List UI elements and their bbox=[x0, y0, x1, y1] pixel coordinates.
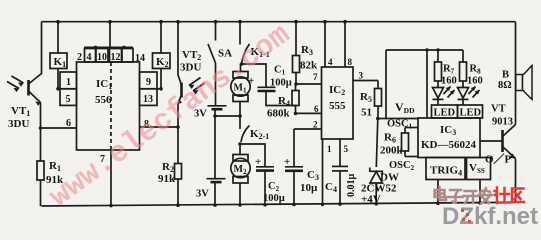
transistor VT1 (3DU phototransistor) bbox=[7, 76, 41, 130]
wire OSC2 pin bbox=[405, 156, 418, 158]
svg-text:3DU: 3DU bbox=[180, 62, 201, 74]
wire VDD node to LED rail bbox=[378, 50, 386, 119]
wire IC2 pin8 bbox=[344, 22, 346, 67]
motor M2 bbox=[231, 144, 250, 205]
svg-text:VT2: VT2 bbox=[182, 49, 201, 62]
svg-text:2: 2 bbox=[313, 120, 318, 130]
node M1/C1 junction bbox=[240, 62, 244, 66]
svg-text:B: B bbox=[502, 70, 509, 81]
svg-text:6: 6 bbox=[66, 118, 71, 129]
LED D2 bbox=[458, 87, 480, 106]
svg-text:5: 5 bbox=[66, 94, 71, 105]
speaker B 8ohm bbox=[498, 66, 532, 100]
svg-text:VSS: VSS bbox=[469, 162, 485, 175]
svg-text:0.01µ: 0.01µ bbox=[346, 174, 357, 198]
svg-text:160: 160 bbox=[441, 76, 457, 87]
svg-text:5: 5 bbox=[344, 144, 349, 154]
resistor R8 160 bbox=[460, 50, 483, 88]
wire VT1 collector to top rail bbox=[29, 22, 42, 84]
svg-text:K1: K1 bbox=[54, 56, 67, 69]
svg-text:10µ: 10µ bbox=[300, 182, 318, 194]
svg-text:LED: LED bbox=[460, 108, 482, 119]
svg-text:1: 1 bbox=[327, 144, 332, 154]
svg-text:14: 14 bbox=[135, 53, 145, 64]
LED D1 bbox=[433, 87, 455, 106]
svg-text:VT: VT bbox=[491, 104, 506, 115]
wire IC1 pin7 to ground bbox=[110, 150, 112, 206]
svg-text:OSC1: OSC1 bbox=[387, 119, 413, 131]
svg-text:4: 4 bbox=[87, 52, 92, 63]
wire right border: speaker/collector segment bbox=[515, 22, 517, 125]
battery GB2 3V bbox=[196, 116, 226, 205]
svg-text:OSC2: OSC2 bbox=[389, 160, 415, 172]
svg-text:+: + bbox=[284, 156, 290, 168]
resistor R2 91k bbox=[158, 127, 182, 205]
capacitor C4 (pin5) bbox=[325, 139, 357, 204]
svg-text:10: 10 bbox=[97, 52, 107, 63]
svg-text:3: 3 bbox=[359, 71, 364, 81]
IC1 pin box 9 bbox=[140, 72, 158, 89]
svg-text:100µ: 100µ bbox=[270, 78, 292, 89]
resistor R5 51 bbox=[360, 81, 382, 119]
svg-text:R4: R4 bbox=[278, 95, 290, 108]
svg-text:VDD: VDD bbox=[395, 100, 415, 115]
resistor R1 91k bbox=[37, 128, 64, 206]
svg-text:2: 2 bbox=[77, 52, 82, 63]
wire bottom ground rail bbox=[42, 202, 516, 206]
svg-text:R3: R3 bbox=[301, 44, 313, 57]
wire LED supply sub-rail bbox=[386, 49, 463, 51]
node pin8 rail junction bbox=[343, 20, 347, 24]
svg-text:9: 9 bbox=[146, 77, 151, 88]
wire pin13 to K2 bbox=[157, 88, 161, 90]
transistor VT 9013 bbox=[491, 104, 516, 159]
svg-text:VT1: VT1 bbox=[11, 105, 30, 118]
svg-text:DZkf.net: DZkf.net bbox=[442, 203, 538, 229]
motor M1 bbox=[231, 64, 250, 116]
svg-text:82k: 82k bbox=[300, 60, 318, 72]
IC1 pin box 1 bbox=[60, 72, 77, 89]
wire right border: emitter to ground bbox=[515, 159, 517, 204]
svg-text:9013: 9013 bbox=[492, 117, 513, 128]
IC3 pin box TRIG4 bbox=[426, 158, 465, 180]
wire IC1 pin8 bbox=[140, 126, 179, 128]
svg-text:1: 1 bbox=[66, 77, 71, 88]
svg-text:TRIG4: TRIG4 bbox=[430, 165, 462, 178]
svg-text:680k: 680k bbox=[267, 108, 291, 120]
resistor R7 160 bbox=[435, 50, 457, 88]
node M1 bottom junction bbox=[238, 114, 242, 118]
svg-text:51: 51 bbox=[361, 107, 372, 119]
svg-text:7: 7 bbox=[313, 72, 318, 82]
node VT2 top rail junction bbox=[176, 20, 180, 24]
svg-text:C3: C3 bbox=[307, 169, 319, 182]
svg-text:C2: C2 bbox=[268, 181, 280, 193]
IC3 pin box LED (left) bbox=[432, 105, 458, 118]
relay coil K1 bbox=[50, 22, 67, 89]
wire top supply rail bbox=[42, 21, 516, 23]
svg-text:M2: M2 bbox=[234, 164, 247, 176]
svg-text:IC2: IC2 bbox=[329, 84, 345, 97]
svg-text:R7: R7 bbox=[443, 64, 455, 76]
node K1 top rail junction bbox=[56, 20, 60, 24]
wire IC2 pin4 bbox=[324, 22, 326, 67]
op-amp U1: IC1 556 dual timer box bbox=[77, 62, 140, 150]
svg-text:LED: LED bbox=[434, 108, 456, 119]
wire IC2 pin1 to ground bbox=[322, 139, 324, 204]
node K1-1 top rail junction bbox=[238, 20, 242, 24]
relay contact K2-1 bbox=[240, 116, 269, 142]
svg-text:4: 4 bbox=[328, 57, 333, 67]
svg-text:R8: R8 bbox=[470, 64, 482, 76]
svg-text:160: 160 bbox=[467, 76, 483, 87]
node pin8/VT2 junction bbox=[176, 125, 180, 129]
IC1 top pin header boxes 2,4,10,12,14 bbox=[77, 20, 145, 64]
IC3 pin box LED (right) bbox=[458, 105, 483, 118]
badge 电子开发社区 (drawn strokes) bbox=[435, 187, 493, 204]
wire VDD pin drop bbox=[426, 50, 428, 118]
node R3 top rail junction bbox=[294, 20, 298, 24]
svg-text:200k: 200k bbox=[380, 145, 404, 157]
wire IC3 O/P to transistor base bbox=[480, 140, 503, 142]
svg-text:3V: 3V bbox=[196, 189, 209, 200]
svg-text:12: 12 bbox=[111, 52, 121, 63]
relay contact K1-1 bbox=[240, 22, 270, 64]
svg-text:6: 6 bbox=[314, 104, 319, 114]
node SA top rail junction bbox=[214, 20, 218, 24]
wire VDD node to IC3 bbox=[386, 118, 418, 120]
zener diode DW 2CW52 bbox=[361, 119, 399, 206]
svg-text:R6: R6 bbox=[384, 132, 396, 145]
node battery mid junction bbox=[213, 114, 217, 118]
svg-text:C1: C1 bbox=[274, 65, 286, 77]
badge DZkf.net bbox=[442, 203, 538, 230]
wire VSS to ground bbox=[479, 180, 481, 203]
svg-text:8: 8 bbox=[348, 57, 353, 67]
svg-text:K2: K2 bbox=[156, 56, 169, 69]
svg-text:C4: C4 bbox=[325, 181, 337, 194]
wire battery to M1 branch bbox=[215, 115, 240, 117]
IC1 pin box 13 bbox=[140, 89, 158, 106]
svg-text:www.elecfans.com: www.elecfans.com bbox=[44, 18, 297, 215]
svg-text:3DU: 3DU bbox=[8, 118, 29, 130]
resistor R6 200k bbox=[380, 128, 409, 157]
wire IC2 pin7 bbox=[296, 83, 322, 85]
node R3/R4/pin7 junction bbox=[294, 82, 298, 86]
svg-text:555: 555 bbox=[329, 100, 346, 112]
wire IC2 pin6 bbox=[296, 112, 322, 114]
svg-text:K2-1: K2-1 bbox=[250, 128, 269, 141]
wire IC1 pin6 bbox=[41, 127, 77, 129]
svg-text:IC3: IC3 bbox=[440, 124, 456, 137]
wire TRIG4 to ground bbox=[437, 180, 439, 204]
svg-text:R5: R5 bbox=[360, 91, 372, 104]
transistor VT2 (3DU phototransistor) bbox=[178, 22, 205, 127]
node K2 top rail junction bbox=[159, 20, 163, 24]
svg-text:100µ: 100µ bbox=[263, 193, 285, 204]
node K1/pin5 junction bbox=[56, 87, 60, 91]
relay coil K2 bbox=[153, 22, 171, 89]
resistor R3 82k bbox=[293, 22, 319, 84]
switch SA bbox=[208, 22, 232, 106]
op-amp U2: IC2 555 timer box bbox=[322, 67, 354, 139]
svg-text:IC1: IC1 bbox=[96, 78, 112, 91]
svg-text:KD—56024: KD—56024 bbox=[421, 139, 477, 151]
IC3 pin box VSS bbox=[467, 158, 491, 180]
wire IC2 pin2 bbox=[294, 128, 322, 130]
capacitor C2 100u bbox=[240, 144, 285, 205]
wire IC2 pin3 bbox=[353, 80, 378, 82]
node R4/pin6 junction bbox=[294, 112, 298, 116]
capacitor C1 100u bbox=[242, 64, 296, 106]
svg-text:556: 556 bbox=[95, 94, 112, 106]
capacitor C3 10u bbox=[284, 129, 319, 205]
node K2-1/M2 junction bbox=[238, 142, 242, 146]
battery GB1 3V bbox=[194, 106, 227, 120]
node K2 junction bbox=[159, 87, 163, 91]
svg-text:+: + bbox=[255, 156, 261, 168]
ground rail junction dots bbox=[109, 201, 482, 207]
IC1 pin box 5 bbox=[60, 89, 77, 106]
svg-text:91k: 91k bbox=[158, 173, 176, 185]
svg-text:8Ω: 8Ω bbox=[498, 80, 512, 91]
resistor R4 680k bbox=[267, 84, 299, 120]
node VDD 4V junction bbox=[376, 117, 380, 121]
svg-text:R1: R1 bbox=[49, 160, 61, 173]
wire OSC1 pin bbox=[405, 127, 418, 129]
svg-text:13: 13 bbox=[143, 94, 153, 105]
svg-text:O／P: O／P bbox=[485, 153, 512, 166]
node pin4 rail junction bbox=[323, 20, 327, 24]
op-amp U3: IC3 KD-56024 box bbox=[418, 118, 480, 158]
node VT1 emitter junction bbox=[39, 126, 43, 130]
